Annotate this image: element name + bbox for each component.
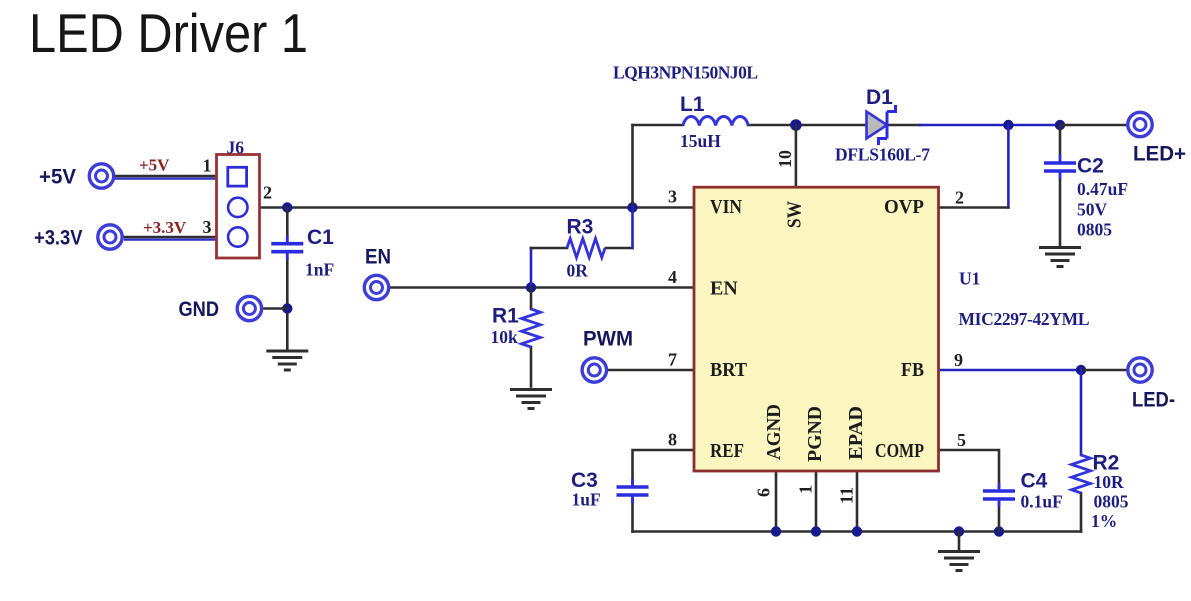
wire L1 to D1 anode bbox=[748, 124, 867, 127]
svg-text:BRT: BRT bbox=[710, 359, 748, 381]
inductor L1 bbox=[680, 93, 748, 151]
svg-text:9: 9 bbox=[954, 350, 963, 370]
node VIN junction at C1 bbox=[282, 202, 292, 212]
wire PWM port to BRT pin bbox=[609, 369, 694, 372]
wire REF pin to C3 bbox=[633, 450, 695, 483]
svg-text:11: 11 bbox=[837, 487, 857, 504]
port LED+ bbox=[1128, 112, 1186, 165]
wire bottom ground rail bbox=[633, 530, 1082, 533]
wire top rail left of L1 bbox=[633, 124, 684, 127]
wire C4 bottom lead bbox=[998, 503, 1001, 532]
wire J6 pin2 to VIN rail bbox=[248, 206, 695, 209]
node SW junction bbox=[790, 119, 802, 131]
wire rail ground stem bbox=[958, 532, 961, 550]
wire EPAD stub bbox=[856, 471, 859, 532]
svg-text:0805: 0805 bbox=[1077, 220, 1112, 240]
svg-text:LED Driver 1: LED Driver 1 bbox=[29, 2, 308, 64]
svg-text:COMP: COMP bbox=[875, 440, 924, 462]
wire +5V port to J6 pin1 bbox=[115, 176, 228, 179]
wire R3 right riser bbox=[631, 208, 634, 249]
svg-text:REF: REF bbox=[710, 440, 744, 462]
wire C3 bottom lead bbox=[631, 499, 634, 532]
svg-text:EN: EN bbox=[365, 246, 391, 269]
svg-text:DFLS160L-7: DFLS160L-7 bbox=[835, 145, 930, 165]
node VIN junction at L1 riser bbox=[627, 202, 637, 212]
resistor R2 bbox=[1072, 452, 1129, 532]
wire OVP riser bbox=[1007, 125, 1010, 208]
svg-text:+5V: +5V bbox=[139, 156, 170, 175]
svg-text:LQH3NPN150NJ0L: LQH3NPN150NJ0L bbox=[613, 63, 758, 83]
svg-text:EN: EN bbox=[710, 278, 738, 300]
wire PGND stub bbox=[815, 471, 818, 532]
wire COMP pin to C4 bbox=[939, 450, 1000, 487]
wire SW stub bbox=[795, 125, 798, 187]
wire R1 bottom lead to ground bbox=[530, 347, 533, 387]
ground below C2 bbox=[1039, 248, 1081, 267]
wire C2 top lead bbox=[1059, 125, 1062, 156]
svg-text:+3.3V: +3.3V bbox=[34, 227, 83, 250]
node C4 rail junction bbox=[994, 526, 1004, 536]
wire +3.3V port to J6 pin3 bbox=[124, 237, 228, 240]
node PGND junction bbox=[811, 526, 821, 536]
node rail ground junction bbox=[954, 526, 964, 536]
svg-text:50V: 50V bbox=[1077, 199, 1108, 219]
svg-text:15uH: 15uH bbox=[680, 131, 721, 151]
node AGND junction bbox=[771, 526, 781, 536]
svg-text:R1: R1 bbox=[492, 305, 519, 328]
svg-text:1uF: 1uF bbox=[572, 490, 601, 510]
node C2 junction bbox=[1055, 120, 1065, 130]
svg-text:10k: 10k bbox=[491, 327, 519, 347]
svg-text:1: 1 bbox=[796, 485, 816, 494]
svg-text:PGND: PGND bbox=[804, 406, 826, 462]
svg-text:+3.3V: +3.3V bbox=[143, 218, 187, 237]
wire R3 right lead bbox=[606, 247, 633, 250]
svg-text:C1: C1 bbox=[307, 226, 334, 249]
svg-text:10: 10 bbox=[775, 150, 795, 168]
resistor R1 bbox=[491, 305, 541, 348]
wire D1 cathode black segment bbox=[887, 124, 920, 127]
diode D1 bbox=[835, 86, 930, 165]
svg-text:LED+: LED+ bbox=[1133, 143, 1186, 166]
ground below R1 bbox=[510, 390, 552, 409]
node GND junction below C1 bbox=[282, 303, 292, 313]
svg-text:GND: GND bbox=[179, 298, 220, 321]
svg-text:+5V: +5V bbox=[39, 166, 76, 189]
port +5V bbox=[39, 164, 114, 189]
svg-text:U1: U1 bbox=[959, 269, 980, 289]
svg-text:EPAD: EPAD bbox=[845, 406, 867, 460]
svg-text:D1: D1 bbox=[866, 86, 893, 109]
IC U1 MIC2297 bbox=[694, 187, 939, 471]
svg-text:0R: 0R bbox=[567, 261, 589, 281]
wire EN port to EN pin bbox=[391, 286, 695, 289]
capacitor C3 bbox=[571, 469, 649, 510]
ground below bottom rail bbox=[938, 552, 980, 571]
wire C2 junction to LED+ port bbox=[1060, 124, 1127, 127]
ground below C1 bbox=[266, 351, 308, 370]
svg-text:C4: C4 bbox=[1021, 470, 1048, 493]
wire L1 riser down to VIN rail bbox=[631, 125, 634, 208]
node OVP riser junction bbox=[1003, 120, 1013, 130]
svg-text:3: 3 bbox=[668, 187, 677, 207]
port LED- bbox=[1128, 358, 1175, 412]
svg-text:2: 2 bbox=[955, 188, 964, 208]
svg-text:LED-: LED- bbox=[1132, 389, 1175, 412]
wire R1 top lead bbox=[530, 288, 533, 310]
node FB junction bbox=[1076, 365, 1086, 375]
svg-text:R3: R3 bbox=[567, 216, 594, 239]
svg-text:C2: C2 bbox=[1077, 155, 1104, 178]
wire R3 left riser bbox=[530, 248, 533, 288]
svg-text:AGND: AGND bbox=[763, 404, 785, 460]
svg-text:1%: 1% bbox=[1091, 511, 1117, 531]
wire FB junction to LED- port bbox=[1081, 369, 1127, 372]
svg-text:PWM: PWM bbox=[583, 328, 633, 351]
svg-text:8: 8 bbox=[668, 430, 677, 450]
wire D1 cathode highlighted segment bbox=[920, 124, 1060, 127]
svg-text:6: 6 bbox=[754, 488, 774, 497]
svg-text:0805: 0805 bbox=[1094, 492, 1129, 512]
svg-text:3: 3 bbox=[203, 217, 212, 237]
node EPAD junction bbox=[852, 526, 862, 536]
node EN junction bbox=[526, 282, 536, 292]
svg-text:VIN: VIN bbox=[710, 196, 742, 218]
svg-text:5: 5 bbox=[957, 430, 966, 450]
resistor R3 bbox=[567, 216, 606, 281]
capacitor C1 bbox=[271, 226, 334, 280]
wire C2 bottom lead to ground bbox=[1059, 178, 1062, 246]
svg-text:OVP: OVP bbox=[884, 196, 924, 218]
svg-text:MIC2297-42YML: MIC2297-42YML bbox=[959, 309, 1090, 329]
connector J6 bbox=[217, 138, 260, 259]
capacitor C2 bbox=[1044, 155, 1128, 240]
svg-text:L1: L1 bbox=[680, 93, 705, 116]
wire C1 top lead bbox=[286, 208, 289, 238]
svg-text:FB: FB bbox=[901, 359, 924, 381]
wire GND port to C1 net bbox=[264, 307, 288, 310]
port GND bbox=[179, 296, 262, 321]
svg-text:7: 7 bbox=[668, 350, 677, 370]
svg-text:J6: J6 bbox=[227, 138, 245, 158]
port PWM bbox=[582, 328, 633, 383]
svg-text:2: 2 bbox=[263, 183, 272, 203]
wire AGND stub bbox=[775, 471, 778, 532]
wire R2 bottom lead bbox=[1080, 493, 1083, 532]
wire FB pin highlighted bbox=[939, 369, 1082, 372]
svg-text:1nF: 1nF bbox=[305, 260, 334, 280]
wire OVP pin to riser bbox=[939, 206, 1009, 209]
svg-text:0.1uF: 0.1uF bbox=[1021, 492, 1063, 512]
port EN bbox=[364, 246, 391, 300]
wire R3 left lead bbox=[531, 247, 567, 250]
port +3.3V bbox=[34, 225, 122, 250]
wire R2 top riser bbox=[1080, 370, 1083, 455]
svg-text:0.47uF: 0.47uF bbox=[1077, 179, 1128, 199]
svg-text:10R: 10R bbox=[1094, 472, 1125, 492]
capacitor C4 bbox=[983, 470, 1063, 512]
svg-text:1: 1 bbox=[203, 156, 212, 176]
wire C1 bottom lead to ground bbox=[286, 259, 289, 350]
svg-text:4: 4 bbox=[668, 267, 677, 287]
svg-text:SW: SW bbox=[784, 201, 806, 228]
